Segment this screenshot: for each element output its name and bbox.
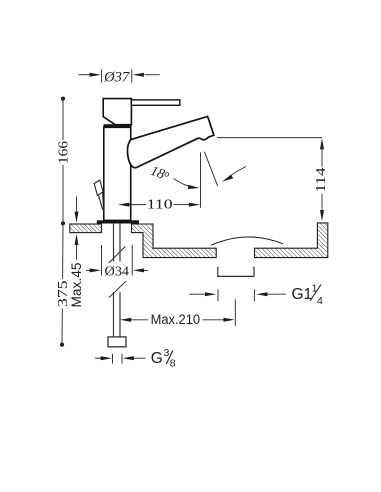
dimension G1 1/4 (drain thread)	[189, 289, 286, 301]
pipe end block (G3/8 nipple)	[108, 337, 126, 347]
svg-text:Max.45: Max.45	[69, 263, 84, 308]
basin bottom right + right wall	[255, 223, 328, 258]
drain fitting	[218, 267, 254, 277]
svg-text:8: 8	[170, 357, 176, 369]
svg-text:110: 110	[147, 197, 173, 212]
svg-text:3: 3	[164, 347, 170, 359]
pipe break slash lower	[109, 281, 126, 297]
dimension Ø37 (spout body diameter)	[79, 69, 160, 82]
base plate	[97, 220, 139, 223]
dimension 375 (total depth, dot endpoints)	[60, 343, 64, 347]
countertop right of hole + basin step + basin bottom left	[132, 224, 217, 258]
spout (18° tilted)	[127, 116, 213, 167]
lever handle	[131, 100, 179, 105]
dimension Ø34 (hole diameter)	[86, 245, 148, 276]
dimension G 3/8 (supply thread)	[95, 354, 146, 364]
faucet top block (cartridge housing)	[103, 99, 131, 125]
supply pipe shank	[114, 224, 121, 337]
svg-text:4: 4	[317, 295, 323, 307]
dimension 114 (spout height above rim)	[321, 150, 323, 210]
dimension Max.45 (deck thickness)	[76, 197, 78, 260]
svg-text:Ø34: Ø34	[105, 263, 130, 278]
faucet body	[104, 127, 131, 220]
spout height reference line	[217, 137, 322, 139]
svg-text:375: 375	[55, 280, 70, 307]
svg-text:1: 1	[312, 282, 318, 294]
svg-text:Ø37: Ø37	[103, 69, 130, 85]
basin dome arc over drain	[211, 237, 283, 245]
side tag (temperature lever detail)	[94, 180, 103, 210]
svg-text:G: G	[151, 350, 163, 367]
svg-text:G1: G1	[292, 286, 313, 303]
svg-text:114: 114	[313, 167, 328, 192]
dimension 110 (spout reach)	[129, 204, 189, 206]
svg-text:Max.210: Max.210	[151, 312, 201, 327]
dimension Max.210 (to drain centre)	[131, 299, 235, 326]
pipe break slash upper	[109, 247, 126, 264]
joint band	[103, 124, 131, 127]
18° angle annotation	[174, 152, 247, 208]
dimension 166 (height, dot endpoints)	[61, 97, 65, 101]
countertop left slab	[70, 224, 102, 233]
svg-text:166: 166	[56, 141, 71, 164]
